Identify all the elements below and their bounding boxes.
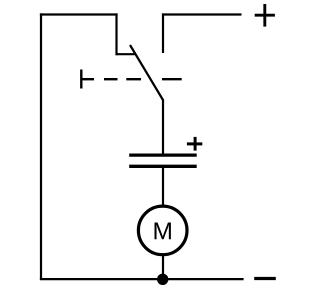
actuator linkage dash 3 xyxy=(162,78,182,80)
wire: capacitor to motor xyxy=(162,165,164,206)
junction node xyxy=(157,274,168,285)
wire: bottom rail xyxy=(40,278,244,280)
actuator linkage dash 1 xyxy=(104,78,118,80)
wire: top-right horizontal to + terminal xyxy=(162,13,242,15)
wire: switch pole down to capacitor xyxy=(162,100,164,155)
battery - terminal xyxy=(254,277,276,280)
wire: drop from top horizontal to switch left contact xyxy=(115,13,117,55)
capacitor C1 top plate xyxy=(129,153,197,156)
pushbutton actuator bar xyxy=(80,70,82,89)
actuator linkage dash 2 xyxy=(126,78,141,80)
capacitor C1 bottom plate xyxy=(129,165,197,168)
actuator stub xyxy=(81,78,94,80)
wire: switch left contact stub xyxy=(117,53,135,55)
wire: motor to bottom junction xyxy=(162,254,164,280)
battery + terminal xyxy=(255,4,275,27)
wire: top horizontal of left branch xyxy=(40,13,118,15)
motor M1 circle xyxy=(138,206,187,255)
motor label M xyxy=(155,222,171,239)
capacitor polarity + xyxy=(187,137,202,151)
wire: right vertical to switch upper contact xyxy=(162,13,164,53)
wire: left vertical from bottom rail to top xyxy=(40,13,42,280)
switch S1 blade xyxy=(130,45,163,101)
